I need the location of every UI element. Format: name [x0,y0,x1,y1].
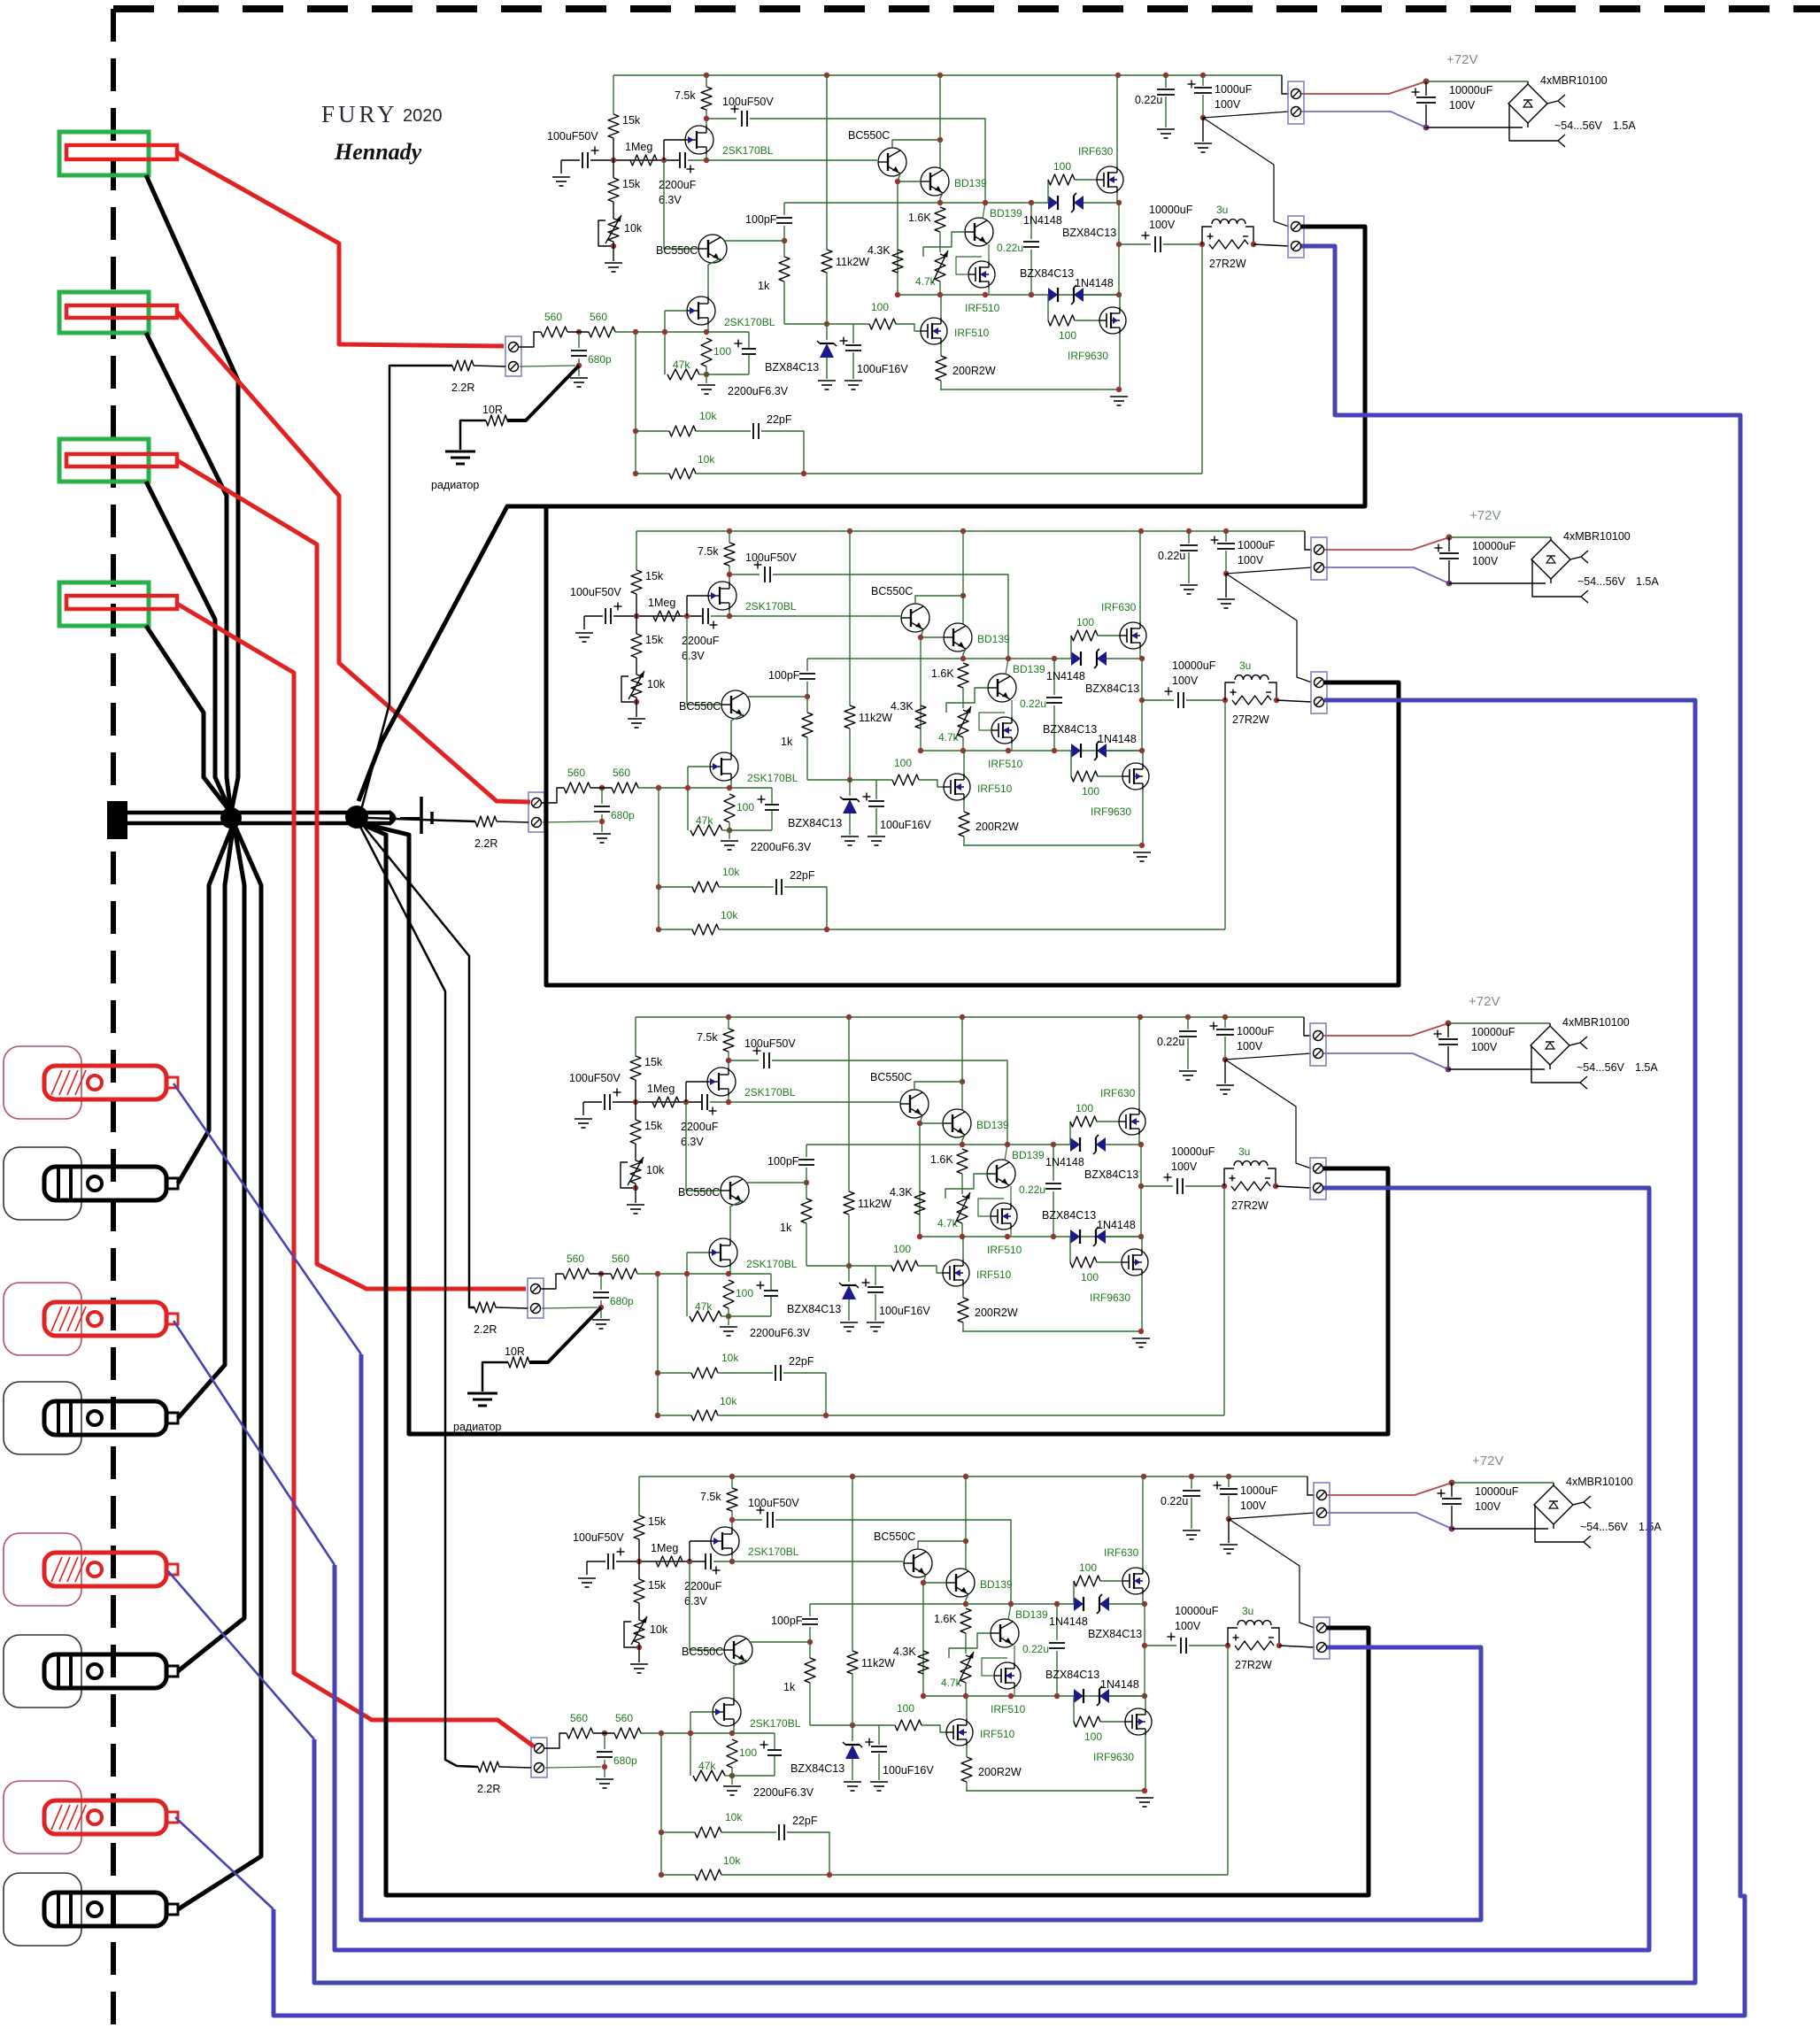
RCA connector [4,1873,81,1946]
star ground bus bar [107,801,127,839]
RCA connector [4,1635,81,1708]
wire RCA4 signal (blue) [175,1817,274,1909]
radiator ground channel 1 [431,366,579,491]
svg-text:2020: 2020 [403,106,443,126]
wire 2.2R ground channel 1 [361,366,452,810]
wire speaker return 4 (black) [146,626,231,813]
RCA connector [4,1781,81,1854]
node star blob 2 [345,806,368,829]
wire speaker minus channel 4 (blue) [361,1354,1481,1920]
wire speaker minus channel 3 (blue) [335,1188,1649,1950]
wire RCA3 signal (blue) [168,1571,314,1739]
wire RCA ground 4 (black) [178,823,261,1909]
wire 2.2R ground channel 4 [359,825,478,1767]
wire speaker return 3 (black) [146,482,231,813]
svg-text:Hennady: Hennady [334,139,422,165]
speaker fuse holder 1 (green) [59,132,149,175]
speaker fuse holder 3 (green) [59,439,149,482]
RCA connector [4,1046,81,1119]
wire RCA1 signal (blue) [174,1083,361,1354]
amplifier channel 4 [477,1453,1662,1880]
RCA connector [4,1382,81,1454]
fuse element 1 (red) [66,145,177,159]
fuse element 2 (red) [66,305,177,318]
wire input hot channel 2 (red) [177,312,530,802]
wire speaker frame channel 3 (black) [358,822,1388,1434]
wire speaker frame channel 1 (black) [359,227,1365,801]
wire RCA ground 1 (black) [178,823,234,1183]
wire speaker return 2 (black) [146,333,231,813]
wire speaker minus channel 1 (blue) [274,246,1745,2016]
wire input hot channel 4 (red) [177,604,534,1746]
RCA connector [4,1283,81,1355]
speaker fuse holder 4 (green) [59,582,149,626]
wire 2.2R ground channel 3 [361,823,474,1307]
amplifier channel 3 [474,994,1658,1421]
wire speaker minus channel 2 (blue) [314,700,1695,1983]
chassis ground icon [400,817,420,819]
wire input hot channel 1 (red) [177,152,504,346]
node star blob 1 [220,807,242,829]
fuse element 4 (red) [66,596,177,609]
wire speaker return 1 (black) [146,175,238,813]
wire 2.2R ground channel 2 [368,818,475,821]
amplifier channel 2 [474,508,1659,935]
RCA connector [4,1533,81,1606]
dashed chassis border top [113,5,1820,12]
dashed chassis border left [111,9,116,2029]
RCA connector [4,1147,81,1220]
wire RCA ground 3 (black) [178,823,244,1671]
wire RCA ground 2 (black) [178,823,234,1418]
svg-text:FURY: FURY [321,101,398,127]
wire input hot channel 3 (red) [177,460,526,1289]
fuse element 3 (red) [66,454,177,466]
amplifier channel 1 [451,52,1636,479]
wire speaker frame channel 2 (black) [546,508,1399,985]
speaker fuse holder 2 (green) [59,292,149,333]
wire speaker frame channel 4 (black) [359,823,1369,1895]
wire RCA2 signal (blue) [174,1321,335,1565]
radiator ground channel 3 [453,1307,601,1433]
